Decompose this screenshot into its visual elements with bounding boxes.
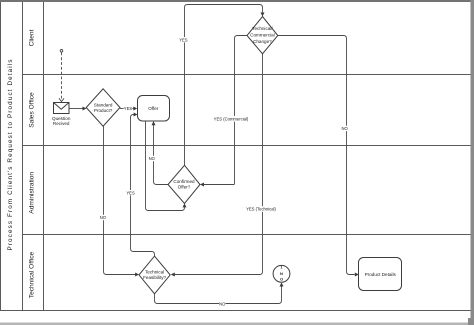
svg-text:Feasibility?: Feasibility? [143, 275, 166, 280]
svg-text:NO: NO [100, 215, 107, 220]
svg-text:YES: YES [124, 106, 133, 111]
svg-text:Standard: Standard [94, 102, 113, 107]
svg-text:Commercial: Commercial [250, 33, 275, 38]
svg-text:Technical Office: Technical Office [29, 251, 36, 298]
svg-text:NO: NO [219, 302, 226, 307]
svg-text:Recived: Recived [53, 121, 70, 126]
svg-text:Offer?: Offer? [178, 185, 191, 190]
svg-text:Product?: Product? [94, 108, 113, 113]
svg-text:Client: Client [29, 29, 36, 46]
svg-text:Confirmed: Confirmed [173, 179, 195, 184]
svg-text:YES (Technical): YES (Technical) [246, 207, 276, 212]
svg-text:NO: NO [149, 156, 156, 161]
svg-text:O: O [280, 277, 283, 282]
svg-text:Change?: Change? [253, 39, 272, 44]
svg-text:YES: YES [126, 190, 135, 195]
svg-text:Technical: Technical [145, 270, 164, 275]
svg-text:NO: NO [341, 126, 348, 131]
svg-text:Technical/: Technical/ [252, 26, 273, 31]
svg-text:YES: YES [179, 37, 188, 42]
svg-text:Process From Client's Request: Process From Client's Request to Product… [7, 60, 14, 251]
svg-text:YES (Commercial): YES (Commercial) [214, 117, 249, 122]
svg-text:Administration: Administration [29, 172, 36, 214]
svg-text:N: N [280, 271, 283, 276]
svg-text:Offer: Offer [148, 106, 159, 111]
svg-text:Product Details: Product Details [365, 272, 397, 277]
svg-text:Sales Office: Sales Office [29, 92, 36, 128]
